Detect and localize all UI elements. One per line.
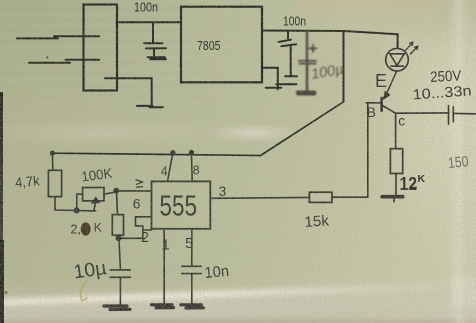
ground bar under C5: [181, 305, 204, 308]
bottom diagonal crease: [0, 280, 476, 307]
timer U1 555 box: [152, 181, 211, 228]
LED D1 circle: [386, 48, 409, 71]
potentiometer R2 100k body: [83, 188, 104, 201]
ground under rectifier: [137, 106, 163, 107]
wire cap to edge: [453, 112, 476, 114]
wire pin3 to 15k: [210, 196, 309, 199]
capacitor C1 100n lead: [152, 22, 154, 43]
wire 15k riser: [367, 103, 369, 197]
resistor R4 15k body: [309, 192, 332, 202]
wire pin7: [116, 190, 152, 192]
wire input bottom: [29, 60, 99, 63]
wire rail drop to base node: [343, 31, 345, 102]
wire diagonal to 555 rail: [52, 102, 343, 156]
node dot rail-4.7k: [51, 151, 55, 155]
transistor Q1 emitter arrow: [383, 91, 388, 99]
capacitor C5 lower lead: [191, 274, 193, 304]
capacitor C6 10..33n plates: [449, 106, 454, 125]
wire junction down to 2.2k: [117, 191, 118, 215]
left black photo edge: [0, 92, 3, 242]
potentiometer R2 wiper arrow: [94, 201, 96, 211]
capacitor C2 lower lead: [285, 46, 297, 76]
wire collector down: [395, 113, 397, 149]
resistor R1 4.7k lead top: [51, 153, 53, 170]
pencil arc under 10u label: [80, 280, 88, 301]
555 section: [48, 151, 210, 310]
wire pin8 lead: [190, 153, 193, 182]
wire pot left lead: [77, 194, 83, 210]
wire R3 bottom: [117, 235, 120, 238]
capacitor C4 lower lead: [119, 277, 121, 305]
wire input top: [17, 36, 99, 38]
wire pin2: [143, 229, 152, 231]
ground under C1: [148, 57, 167, 59]
LED D1 cathode bar: [391, 65, 404, 67]
wire pin5 lead: [191, 229, 193, 266]
wire 7805 ground pin: [262, 68, 278, 90]
node dot pin8: [190, 151, 194, 155]
node dot pin7 junction: [114, 189, 118, 193]
wire 15k to riser: [332, 196, 368, 198]
capacitor C2 100n lead: [287, 31, 289, 39]
capacitor C4 10u lead: [119, 238, 120, 270]
LED D1 triangle: [390, 54, 405, 66]
node dot pin2-6 junction: [116, 236, 120, 240]
transistor Q1 collector: [382, 105, 396, 113]
wire pin6 staircase: [119, 217, 152, 239]
top edge tan smudge: [296, 0, 436, 9]
wire R1 bottom to junction: [55, 197, 96, 211]
wire R5 to ground: [395, 174, 397, 196]
capacitor C5 10n plates: [182, 266, 202, 273]
ground bar pin1: [152, 305, 174, 308]
node dot pot-left junction: [74, 208, 79, 213]
transistor Q1 bar: [380, 98, 383, 111]
scan streaks top-left: [0, 0, 300, 130]
capacitor C2 plates: [279, 40, 297, 47]
ground under R5: [382, 195, 403, 199]
red speck left edge: [4, 291, 7, 294]
ground bar under C4: [104, 306, 130, 310]
wire pin1 lead: [163, 229, 165, 304]
resistor R3 2.2k body: [112, 215, 123, 236]
label 7 (greater-equal mark): [136, 180, 144, 188]
wire collector to cap: [396, 112, 449, 114]
resistor R5 1.2k body: [390, 149, 402, 174]
capacitor C3 100u electrolytic (blurred): [298, 31, 344, 93]
rectifier box: [84, 5, 118, 91]
node dot pin4: [171, 151, 175, 155]
wire base: [366, 102, 381, 104]
regulator U2 7805 box: [181, 7, 262, 83]
wire pot right lead: [104, 191, 116, 194]
wire 7805 output rail: [262, 31, 398, 35]
wire rectifier to 7805: [117, 21, 182, 23]
wire LED to emitter: [388, 71, 397, 90]
resistor R1 4.7k body: [48, 170, 61, 196]
wire pin4 lead: [168, 153, 173, 182]
wire rectifier lower output: [105, 78, 152, 106]
capacitor C1 lower lead: [153, 48, 155, 57]
LED arrows: [406, 42, 413, 50]
capacitor C1 100n plates: [144, 43, 166, 48]
capacitor C4 plates: [110, 270, 130, 277]
wire LED drop: [397, 34, 399, 48]
pencil speck: [46, 56, 48, 58]
ground under 7805: [266, 84, 297, 88]
